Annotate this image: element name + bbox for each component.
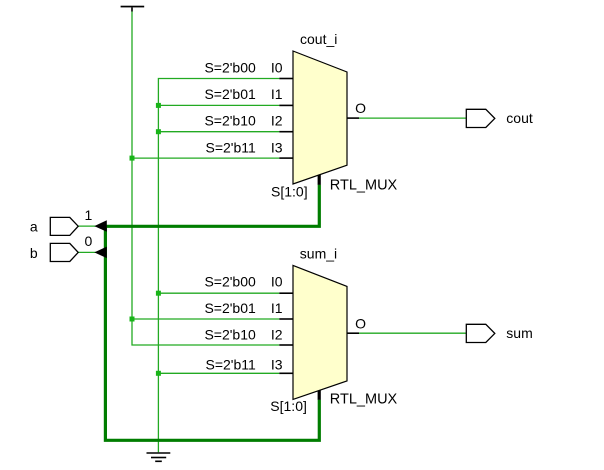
- svg-text:b: b: [30, 245, 38, 261]
- svg-text:I3: I3: [271, 140, 283, 156]
- svg-text:cout_i: cout_i: [300, 31, 337, 47]
- svg-text:S[1:0]: S[1:0]: [271, 184, 308, 200]
- svg-text:S[1:0]: S[1:0]: [270, 398, 307, 414]
- svg-text:S=2'b11: S=2'b11: [206, 140, 257, 156]
- svg-text:I2: I2: [271, 113, 283, 129]
- svg-text:cout: cout: [506, 110, 533, 126]
- svg-text:I2: I2: [271, 327, 283, 343]
- svg-text:0: 0: [85, 233, 93, 249]
- svg-text:S=2'b10: S=2'b10: [204, 327, 256, 343]
- svg-text:S=2'b10: S=2'b10: [204, 113, 256, 129]
- svg-text:O: O: [355, 100, 366, 116]
- svg-text:S=2'b00: S=2'b00: [204, 274, 256, 290]
- svg-text:I3: I3: [271, 356, 283, 372]
- svg-text:a: a: [30, 219, 38, 235]
- svg-text:I1: I1: [271, 86, 283, 102]
- svg-text:I0: I0: [271, 60, 283, 76]
- svg-text:S=2'b00: S=2'b00: [204, 60, 256, 76]
- svg-text:RTL_MUX: RTL_MUX: [330, 392, 398, 408]
- svg-text:RTL_MUX: RTL_MUX: [330, 177, 398, 193]
- svg-text:S=2'b01: S=2'b01: [204, 300, 256, 316]
- svg-text:O: O: [355, 315, 366, 331]
- svg-text:I1: I1: [271, 300, 283, 316]
- svg-text:sum_i: sum_i: [300, 246, 337, 262]
- svg-text:sum: sum: [506, 325, 532, 341]
- svg-text:I0: I0: [271, 274, 283, 290]
- svg-text:S=2'b01: S=2'b01: [204, 86, 256, 102]
- svg-text:S=2'b11: S=2'b11: [206, 356, 257, 372]
- svg-text:1: 1: [85, 207, 93, 223]
